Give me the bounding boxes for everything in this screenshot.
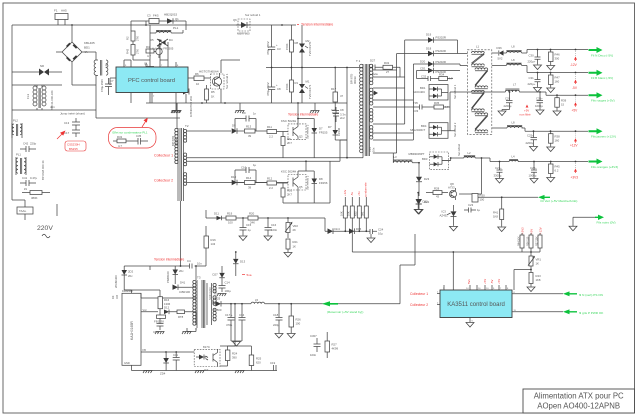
svg-text:R28: R28: [434, 186, 440, 190]
resistor R32 4.7 in ellipse: [113, 135, 134, 148]
svg-text:KA1H0165R: KA1H0165R: [130, 321, 134, 340]
svg-text:R37 33K: R37 33K: [535, 236, 538, 246]
ground below C16: [264, 236, 272, 241]
svg-text:C33: C33: [413, 109, 419, 113]
dual schottky BD3 MBR3045PT: [409, 152, 451, 170]
svg-text:R20: R20: [249, 212, 255, 216]
svg-text:+12V: +12V: [539, 227, 543, 234]
svg-text:Høw: Høw: [372, 72, 379, 76]
capacitor C8p 3.3n: [332, 107, 346, 118]
resistor R25 620: [249, 346, 261, 371]
red label CS5230H: [65, 141, 86, 151]
capacitor C33 T05: [413, 101, 430, 113]
diode D8 FR155: [312, 171, 328, 203]
label sur refroid 1 for Q3: [225, 73, 229, 89]
zener ZD2 with label 2SA6K300: [114, 266, 150, 290]
svg-text:220µ: 220µ: [273, 323, 280, 327]
resistor R27 4K99: [325, 332, 338, 358]
capacitor C14 100u: [217, 281, 231, 297]
svg-text:C32: C32: [421, 75, 427, 79]
svg-text:220V: 220V: [37, 225, 53, 232]
red label 5Vsb: [242, 273, 252, 277]
svg-text:F1: F1: [54, 9, 58, 13]
svg-text:JPn: JPn: [50, 105, 55, 109]
divider resistor Rc K02: [354, 197, 362, 231]
svg-text:KSC 5024H: KSC 5024H: [281, 119, 296, 123]
fuse F1: [54, 9, 68, 26]
svg-text:160: 160: [555, 139, 560, 143]
svg-text:D23: D23: [424, 177, 430, 181]
shunt reg IC3 AZ431: [440, 205, 457, 226]
svg-text:M1: M1: [306, 80, 310, 84]
svg-text:143: 143: [211, 242, 216, 246]
svg-text:100: 100: [228, 221, 233, 225]
red testpoint -5V: [572, 74, 578, 90]
svg-text:Tension intermédiaire: Tension intermédiaire: [301, 23, 333, 27]
wire C1 to intermediate bus: [146, 25, 150, 103]
svg-text:R13: R13: [246, 125, 252, 129]
svg-text:150K: 150K: [285, 83, 289, 90]
svg-text:PS202R: PS202R: [436, 60, 446, 64]
capacitor C17 470u: [225, 304, 235, 341]
wire 0V rail: [573, 217, 595, 226]
svg-text:10K: 10K: [347, 211, 351, 216]
capacitor C22 1000u: [529, 162, 538, 179]
ground rail standby: [132, 371, 278, 374]
svg-text:+3V3: +3V3: [521, 227, 525, 234]
svg-text:6.2: 6.2: [555, 169, 559, 173]
wire aux rail: [150, 265, 206, 280]
svg-text:43: 43: [436, 195, 440, 199]
svg-text:C42: C42: [23, 142, 29, 146]
KA3511 top pin stubs: [443, 285, 509, 290]
transistor Q8 A733: [448, 182, 457, 200]
svg-text:1N5406TR3 20A: 1N5406TR3 20A: [189, 96, 193, 117]
capacitor C30 220u: [528, 50, 541, 65]
svg-text:Fils jaunes (+12V): Fils jaunes (+12V): [591, 135, 616, 139]
resistor R16s 1306: [124, 290, 170, 312]
green arrow reservoir: [322, 301, 338, 306]
ground below C24: [367, 238, 375, 243]
diode D22f: [416, 192, 429, 209]
KA3511 ground pin: [466, 318, 474, 328]
resistor R8b 150K: [285, 68, 299, 104]
red label Collecteur 1: [154, 154, 173, 158]
svg-text:1µ: 1µ: [248, 228, 252, 232]
svg-text:non filtré: non filtré: [520, 112, 531, 116]
svg-text:S16C40C: S16C40C: [413, 90, 425, 94]
capacitor C19: [270, 361, 276, 371]
green arrow +5V output: [589, 92, 603, 98]
svg-text:2200µ: 2200µ: [526, 141, 534, 145]
diode D7p FR106: [328, 118, 347, 140]
wire +3V3 rail: [451, 157, 588, 162]
svg-text:C14: C14: [225, 281, 231, 285]
svg-text:4A: 4A: [84, 50, 88, 54]
svg-text:SBL2040CT: SBL2040CT: [410, 128, 426, 132]
svg-text:condamnée: condamnée: [364, 182, 368, 197]
svg-text:Collecteur 2: Collecteur 2: [154, 179, 173, 183]
resistor R7 150K: [285, 25, 299, 68]
L1 winding d: [475, 113, 488, 133]
svg-text:C35: C35: [136, 134, 142, 138]
ground below R38: [547, 147, 555, 152]
red net label tension intermediaire top: [297, 23, 333, 27]
green arrow PWR-OK: [563, 309, 577, 314]
wire top aux branch: [131, 21, 186, 31]
capacitor C18 220u: [273, 303, 283, 338]
capacitor C307 100n: [310, 334, 321, 357]
wire 5Vsb reservoir run: [265, 234, 415, 304]
svg-text:390: 390: [232, 356, 237, 360]
svg-text:D12: D12: [164, 306, 170, 310]
capacitor C4 10n: [187, 259, 202, 269]
svg-text:NR: NR: [40, 64, 44, 68]
resistor R24 390: [220, 346, 238, 366]
zener ZD4: [160, 352, 169, 376]
capacitor C11: [173, 352, 180, 371]
svg-text:Tension intermédiaire: Tension intermédiaire: [154, 258, 185, 262]
green label PWR-OK: [579, 311, 604, 315]
capacitor C35 in ellipse: [134, 134, 148, 145]
svg-text:2PA6K300: 2PA6K300: [114, 275, 118, 288]
snubber capacitor C21 2n2: [331, 107, 345, 122]
svg-text:Collecteur 1: Collecteur 1: [410, 292, 428, 296]
svg-text:1µ: 1µ: [477, 208, 481, 212]
svg-text:1n: 1n: [253, 112, 257, 116]
inductor L2b coil: [464, 151, 475, 158]
svg-text:5V2: 5V2: [498, 57, 503, 61]
label 220V: [37, 225, 53, 238]
svg-text:L1: L1: [476, 45, 480, 49]
capacitor C9 1n: [235, 111, 257, 131]
resistor R32b 27: [383, 61, 400, 77]
resistor R47 160: [549, 73, 561, 88]
svg-text:Effet sur condensateur PL1: Effet sur condensateur PL1: [113, 131, 148, 135]
diode D7 FR155: [312, 124, 328, 158]
svg-text:470µ 250V: 470µ 250V: [100, 79, 104, 92]
L1 winding c: [472, 90, 485, 111]
diode D10: [231, 175, 244, 185]
svg-text:1K8: 1K8: [493, 215, 498, 219]
svg-text:2.2: 2.2: [269, 134, 273, 138]
series zener D36 5V2: [497, 46, 504, 61]
svg-text:C41: C41: [22, 176, 28, 180]
ground below C22: [530, 179, 538, 184]
label sur refroid 1 BD1: [453, 84, 457, 99]
svg-text:27K: 27K: [136, 49, 140, 54]
resistor R11 2.2: [267, 125, 288, 138]
svg-text:15: 15: [561, 103, 565, 107]
svg-text:0.47µ: 0.47µ: [30, 176, 37, 180]
svg-text:C16: C16: [271, 223, 277, 227]
svg-text:C3: C3: [147, 14, 151, 18]
ground below R21: [284, 253, 292, 258]
svg-text:2200µ: 2200µ: [504, 104, 512, 108]
svg-text:D25: D25: [215, 297, 221, 301]
svg-text:-5V: -5V: [490, 280, 494, 284]
ground primary near PFC: [171, 103, 181, 113]
svg-text:C10: C10: [241, 166, 247, 170]
thyristor M1 TVR 0F271: [299, 68, 310, 104]
divider resistor Rb 10K: [347, 197, 355, 231]
green label reservoir: [327, 310, 363, 314]
main transformer T1: [356, 59, 373, 156]
svg-text:C19: C19: [270, 361, 276, 365]
svg-text:D9: D9: [232, 124, 236, 128]
svg-text:C13: C13: [64, 121, 70, 125]
capacitor C13: [64, 118, 80, 129]
svg-text:D5: D5: [150, 38, 154, 42]
resistor R2 27K: [126, 31, 140, 41]
svg-text:L2: L2: [468, 151, 472, 155]
capacitor C26 1000u: [535, 92, 543, 110]
capacitor C24 10u: [370, 228, 384, 238]
svg-text:1000µ: 1000µ: [535, 104, 543, 108]
wire top mains bus: [12, 24, 296, 26]
svg-text:C13: C13: [368, 147, 372, 152]
red rail labels above divider: [343, 182, 368, 197]
standby transformer T3: [193, 276, 216, 329]
secondary tap vertical 1: [373, 54, 397, 154]
inductor L3: [393, 153, 419, 163]
IC6 drain wire: [124, 290, 196, 330]
svg-text:AOpen AO400-12APNB: AOpen AO400-12APNB: [537, 402, 620, 411]
center tap arrow: [374, 91, 379, 96]
svg-text:D27: D27: [370, 59, 376, 63]
svg-text:Q3: Q3: [299, 135, 303, 139]
sense resistor R36: [526, 233, 533, 252]
svg-text:Q1: Q1: [175, 17, 179, 21]
ZCH diode 1N5406: [176, 83, 189, 103]
capacitor C28 3300u: [494, 162, 503, 179]
svg-text:L8: L8: [512, 45, 516, 49]
svg-text:Sur refroid 2: Sur refroid 2: [306, 124, 310, 139]
svg-text:L4: L4: [512, 155, 516, 159]
svg-text:380K: 380K: [31, 196, 38, 200]
svg-text:100: 100: [296, 322, 301, 326]
svg-text:C2: C2: [331, 108, 335, 112]
transformer PL1: [16, 153, 26, 176]
svg-text:D22: D22: [423, 200, 429, 204]
green label +3V3 wires: [591, 165, 618, 169]
svg-text:R2: R2: [126, 36, 130, 40]
capacitor C1 400V bulk: [144, 60, 157, 81]
svg-text:-12V: -12V: [570, 63, 578, 67]
resistor R30 100: [459, 194, 502, 203]
capacitor C8 470u 250V: [266, 68, 281, 104]
line filter choke FL3: [12, 85, 62, 110]
ground below D22f: [414, 209, 422, 214]
resistor R12 2.2: [267, 177, 288, 190]
optocoupler IC7 817C: [194, 345, 220, 372]
inductor L7: [505, 83, 519, 93]
resistor R17 47: [331, 68, 344, 108]
ground below R46: [547, 66, 555, 71]
svg-text:Vcc: Vcc: [143, 308, 148, 312]
capacitor C31 220u: [528, 73, 541, 88]
capacitor C15 1u: [240, 218, 252, 236]
svg-text:Fil Vert (+5V Marche/Arrêt): Fil Vert (+5V Marche/Arrêt): [541, 199, 578, 203]
ground below C26: [536, 110, 544, 115]
svg-text:R4: R4: [146, 45, 150, 49]
wire collecteur 1: [187, 157, 347, 159]
svg-text:PS202R: PS202R: [436, 36, 446, 40]
wire bridge output to PFC area: [62, 85, 180, 118]
green arrow -12V output: [589, 47, 603, 53]
svg-text:+5V: +5V: [530, 229, 534, 234]
green arrow +3V3 output: [589, 159, 603, 165]
diode D6 MBRF860 boost diode: [233, 13, 261, 36]
resistor R43 27K: [126, 41, 147, 60]
svg-text:C8: C8: [277, 87, 281, 91]
svg-text:Q5: Q5: [299, 185, 303, 189]
ground right of thyristors: [310, 103, 320, 113]
svg-text:BPI 8LB 000 36: BPI 8LB 000 36: [41, 160, 45, 180]
svg-text:0019C: 0019C: [353, 76, 357, 84]
svg-text:fil N (vert) PS ON: fil N (vert) PS ON: [579, 293, 603, 297]
rectifier diode D21 PS202R: [417, 67, 461, 79]
label transformer T3 part: [208, 287, 218, 300]
svg-text:100µ: 100µ: [225, 289, 232, 293]
svg-text:2.2: 2.2: [269, 186, 273, 190]
wire opto feedback runs: [220, 303, 251, 346]
svg-text:FR155: FR155: [319, 131, 328, 135]
label C13 10n near T1 bottom: [368, 147, 376, 152]
svg-text:T2: T2: [185, 124, 189, 128]
resistor R46 200: [549, 50, 561, 66]
svg-text:10n: 10n: [197, 262, 202, 266]
svg-text:Collecteur 2: Collecteur 2: [410, 303, 428, 307]
zener PN4B100: [166, 266, 184, 284]
resistor R45 6.2: [549, 162, 561, 178]
inductor L4: [509, 155, 518, 162]
svg-text:2D2: 2D2: [128, 270, 134, 274]
svg-text:R35: R35: [434, 101, 440, 105]
dual schottky BD4 SBL2040CT: [410, 123, 455, 139]
svg-text:FB1538: FB1538: [154, 320, 164, 324]
red pin labels above KA3511: [467, 279, 501, 284]
label BPI 8LB 000 36: [41, 160, 45, 180]
diode D13s: [233, 251, 246, 276]
svg-text:BY500: BY500: [213, 308, 222, 312]
svg-text:3-BR100: 3-BR100: [179, 290, 190, 294]
red label collecteur 1 pin: [410, 292, 440, 297]
svg-text:#1: #1: [24, 187, 28, 191]
red label collecteur 2 pin: [410, 303, 440, 308]
svg-text:L5: L5: [255, 298, 259, 302]
label 1N5406TR3: [189, 96, 193, 117]
svg-text:PFC control board: PFC control board: [128, 78, 175, 84]
svg-text:L7: L7: [513, 83, 517, 87]
svg-text:R1: R1: [295, 81, 299, 85]
svg-text:PL1: PL1: [173, 26, 179, 30]
svg-text:Fil N Deco (-5V): Fil N Deco (-5V): [591, 53, 613, 57]
svg-text:1K: 1K: [536, 262, 540, 266]
svg-text:+12v: +12v: [343, 189, 347, 196]
L1 winding a: [472, 51, 485, 66]
svg-text:fil gris P PWR OK: fil gris P PWR OK: [579, 311, 604, 315]
green label -5V wires: [591, 76, 613, 80]
ground below R39: [553, 111, 561, 116]
inductor L8b: [506, 58, 521, 66]
driver transistor Q3 KSC 5024H: [281, 119, 306, 139]
capacitor C10 1u: [235, 163, 257, 183]
svg-text:+12V: +12V: [570, 144, 578, 148]
capacitor C29 2200u: [504, 92, 513, 110]
capacitor C3 470u 250V: [266, 25, 281, 68]
diode D1 HB2Q015: [164, 13, 179, 24]
resistor R6 10: [188, 72, 211, 86]
IC6 pin FB: [141, 348, 194, 353]
svg-text:Alimentation ATX pour PC: Alimentation ATX pour PC: [534, 392, 624, 401]
wire Q3 drain up and source down: [221, 60, 240, 103]
capacitor C25 2200u: [526, 131, 538, 146]
diode D9: [232, 124, 244, 134]
green arrow PS-ON: [563, 291, 577, 296]
svg-text:C31: C31: [529, 76, 535, 80]
label sur refroid 2 channel 1: [306, 124, 310, 139]
ground below C29: [498, 110, 510, 116]
svg-text:TVR 0F271: TVR 0F271: [308, 84, 312, 99]
svg-text:Jump inéré (shunt): Jump inéré (shunt): [60, 112, 85, 116]
title block: [523, 389, 635, 413]
wire drive channel 1: [187, 130, 231, 132]
wire 3V3 sense drop: [472, 158, 482, 194]
svg-text:L1p: L1p: [104, 63, 108, 68]
svg-text:10K: 10K: [340, 211, 344, 216]
L1 winding b: [475, 68, 488, 89]
diode D27s to 5Vsb: [213, 266, 225, 284]
svg-text:C8: C8: [340, 108, 344, 112]
ground below C25: [530, 147, 538, 152]
PFC control board: [116, 67, 188, 93]
svg-text:C30: C30: [529, 54, 535, 58]
svg-text:T3: T3: [197, 276, 201, 280]
inductor L5: [228, 298, 265, 305]
resistor R16t 143: [204, 226, 216, 266]
resistor R34 4.7: [439, 73, 453, 81]
svg-text:C26+: C26+: [536, 97, 543, 101]
svg-text:K02: K02: [354, 211, 358, 216]
label BPI 6TR 80004: [171, 136, 179, 146]
ground on intermediate bus: [235, 103, 245, 113]
capacitor C42 220p: [20, 142, 37, 153]
resistor R1 380K: [22, 187, 50, 200]
wire +12V rail: [492, 128, 588, 132]
intermediate bus wire: [146, 102, 347, 104]
divider resistor Ra 10K: [340, 197, 348, 231]
svg-text:20v: 20v: [128, 274, 133, 278]
svg-text:L8: L8: [512, 58, 516, 62]
svg-text:-5v: -5v: [350, 192, 354, 196]
svg-text:R36 110: R36 110: [526, 236, 529, 246]
IC6 pin Vcc: [141, 308, 158, 312]
svg-text:Tension intermédiaire: Tension intermédiaire: [288, 113, 319, 117]
IC6 KA1H0165R: [111, 289, 141, 365]
capacitor C32: [417, 75, 439, 82]
svg-text:4.7: 4.7: [445, 105, 449, 109]
svg-text:C22+: C22+: [530, 166, 537, 170]
svg-text:Sur refroid 2: Sur refroid 2: [453, 122, 457, 137]
ground left of T2: [172, 103, 182, 113]
svg-text:3300µ: 3300µ: [494, 174, 502, 178]
svg-text:1K: 1K: [211, 95, 215, 99]
svg-text:R32: R32: [117, 135, 123, 139]
svg-text:C9: C9: [242, 111, 246, 115]
red testpoint +12V: [570, 133, 578, 148]
resistor R4 4.7 with transistor Q2: [146, 44, 162, 58]
